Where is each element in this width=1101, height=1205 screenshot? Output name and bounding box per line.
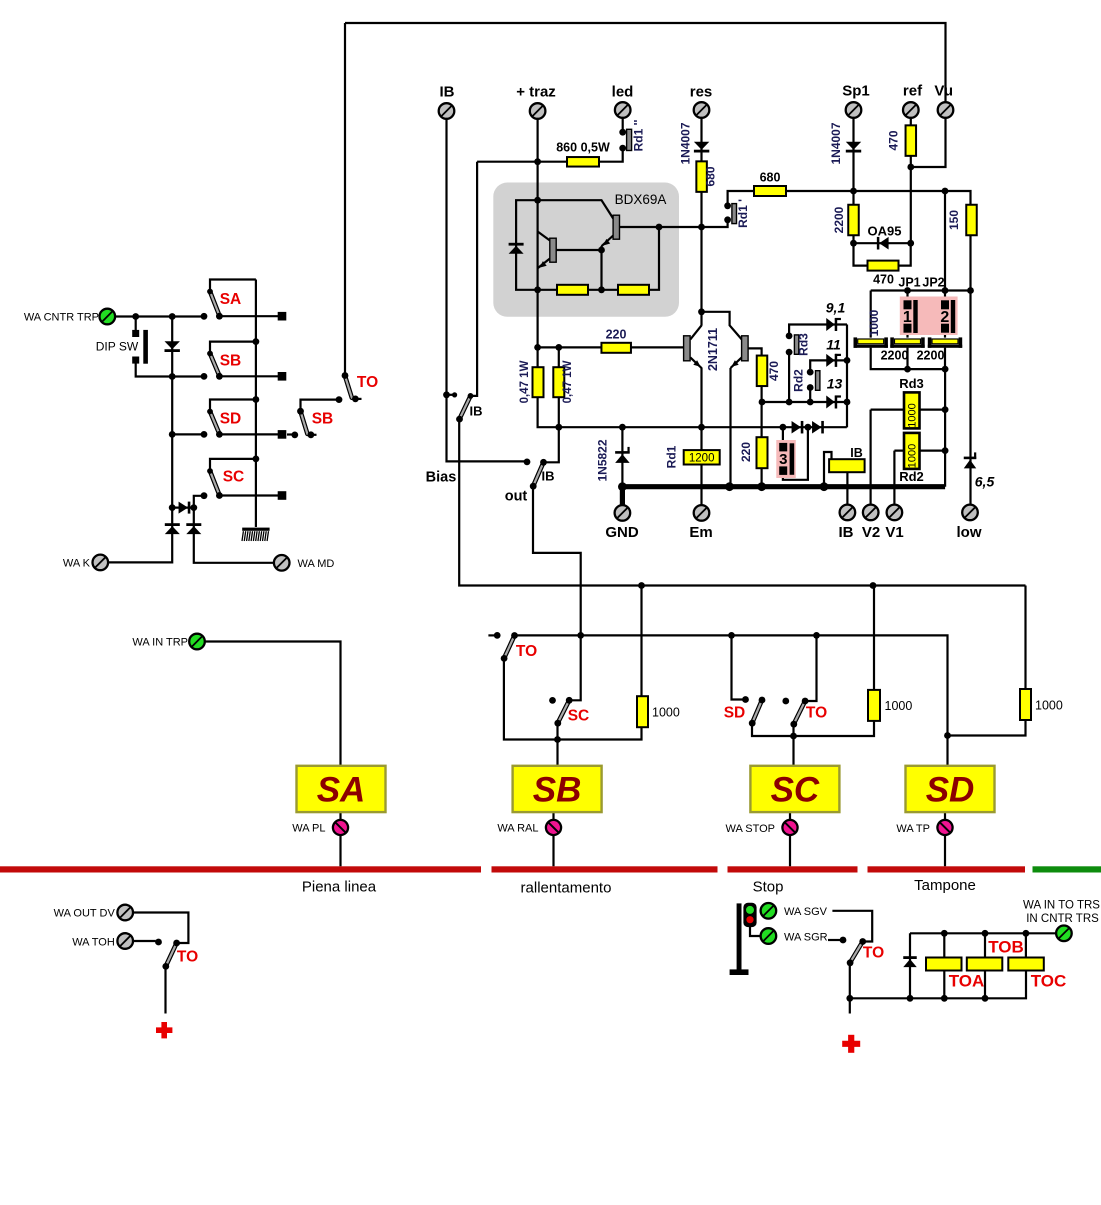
svg-text:WA STOP: WA STOP [725,823,775,835]
svg-text:Em: Em [689,524,712,541]
svg-text:2N1711: 2N1711 [706,328,720,371]
svg-text:470: 470 [873,273,894,287]
svg-text:2200: 2200 [917,349,945,363]
svg-text:6,5: 6,5 [975,474,995,490]
svg-text:TO: TO [357,374,378,391]
svg-text:SA: SA [220,291,242,308]
svg-text:Rd3: Rd3 [899,376,924,391]
svg-text:0,47 1W: 0,47 1W [562,360,574,403]
svg-text:Rd2: Rd2 [792,369,806,392]
svg-text:IB: IB [542,469,555,484]
svg-text:WA TP: WA TP [896,823,930,835]
svg-text:+ traz: + traz [516,84,556,101]
svg-text:IB: IB [440,84,455,101]
svg-text:ref: ref [903,83,923,100]
svg-text:Vu: Vu [934,83,953,100]
svg-text:OA95: OA95 [868,224,902,239]
svg-text:IN CNTR TRS: IN CNTR TRS [1026,913,1099,925]
svg-text:1N4007: 1N4007 [829,122,843,164]
svg-text:Stop: Stop [753,879,784,896]
svg-text:1000: 1000 [1035,699,1063,713]
svg-text:TOA: TOA [949,972,985,991]
svg-text:680: 680 [760,171,781,185]
svg-text:9,1: 9,1 [826,300,846,316]
svg-text:JP1: JP1 [898,276,920,290]
svg-text:3: 3 [779,451,787,468]
svg-text:11: 11 [826,337,841,353]
svg-text:470: 470 [887,130,901,150]
svg-text:WA MD: WA MD [298,558,335,570]
svg-text:Bias: Bias [426,470,457,486]
svg-text:220: 220 [606,328,627,342]
svg-text:WA PL: WA PL [292,823,325,835]
svg-text:WA IN TO TRS: WA IN TO TRS [1023,900,1100,912]
svg-text:rallentamento: rallentamento [521,880,612,897]
svg-text:0,47 1W: 0,47 1W [519,360,531,403]
svg-text:SB: SB [220,353,242,370]
svg-text:WA K: WA K [63,558,91,570]
svg-text:WA RAL: WA RAL [497,823,538,835]
svg-text:TOC: TOC [1031,972,1067,991]
svg-text:WA TOH: WA TOH [72,936,115,948]
svg-text:IB: IB [839,524,854,541]
svg-text:2200: 2200 [881,349,909,363]
svg-text:SD: SD [220,411,242,428]
svg-text:1N5822: 1N5822 [596,439,610,481]
svg-text:680: 680 [704,166,718,186]
svg-text:WA CNTR TRP: WA CNTR TRP [24,312,99,324]
svg-text:DIP SW: DIP SW [96,340,139,354]
svg-text:13: 13 [827,376,843,392]
svg-text:IB: IB [470,404,483,419]
svg-text:low: low [957,524,982,541]
svg-text:JP2: JP2 [922,276,944,290]
svg-text:TO: TO [177,949,198,966]
svg-text:SD: SD [724,705,746,722]
svg-text:out: out [505,489,528,505]
svg-text:WA OUT DV: WA OUT DV [54,908,116,920]
svg-text:GND: GND [605,524,639,541]
svg-text:150: 150 [947,210,961,230]
svg-text:res: res [690,84,713,101]
svg-text:Rd3: Rd3 [797,333,811,356]
svg-text:SA: SA [317,771,366,810]
svg-text:WA SGV: WA SGV [784,906,828,918]
svg-text:TO: TO [516,643,537,660]
svg-text:470: 470 [767,361,781,381]
svg-text:TO: TO [863,945,884,962]
svg-text:Rd1 ': Rd1 ' [736,199,750,228]
svg-text:860 0,5W: 860 0,5W [556,141,610,155]
svg-text:SD: SD [926,771,975,810]
svg-text:1000: 1000 [885,699,913,713]
svg-text:led: led [612,84,634,101]
svg-text:1000: 1000 [907,444,919,468]
svg-text:TO: TO [806,705,827,722]
svg-text:TOB: TOB [988,938,1024,957]
svg-text:1200: 1200 [689,453,715,465]
svg-text:2200: 2200 [832,206,846,233]
svg-text:Rd1: Rd1 [665,445,679,468]
svg-text:IB: IB [850,446,863,460]
svg-text:SC: SC [771,771,820,810]
svg-text:Tampone: Tampone [914,877,976,894]
svg-text:Piena linea: Piena linea [302,879,377,896]
svg-text:1: 1 [903,309,912,326]
svg-text:SC: SC [223,469,245,486]
svg-text:V1: V1 [885,524,903,541]
svg-text:1N4007: 1N4007 [679,122,693,164]
svg-text:WA IN TRP: WA IN TRP [132,637,188,649]
svg-text:1000: 1000 [867,309,881,336]
svg-text:WA SGR: WA SGR [784,931,828,943]
svg-text:1000: 1000 [907,403,919,427]
svg-text:SB: SB [312,411,334,428]
svg-text:Rd1 '': Rd1 '' [632,120,646,152]
svg-text:1000: 1000 [652,706,680,720]
svg-text:SB: SB [533,771,582,810]
svg-text:BDX69A: BDX69A [615,192,667,207]
svg-text:Rd2: Rd2 [899,469,924,484]
svg-text:Sp1: Sp1 [842,83,870,100]
svg-text:V2: V2 [862,524,880,541]
svg-text:SC: SC [568,708,590,725]
svg-text:2: 2 [940,309,949,326]
svg-text:220: 220 [739,442,753,462]
